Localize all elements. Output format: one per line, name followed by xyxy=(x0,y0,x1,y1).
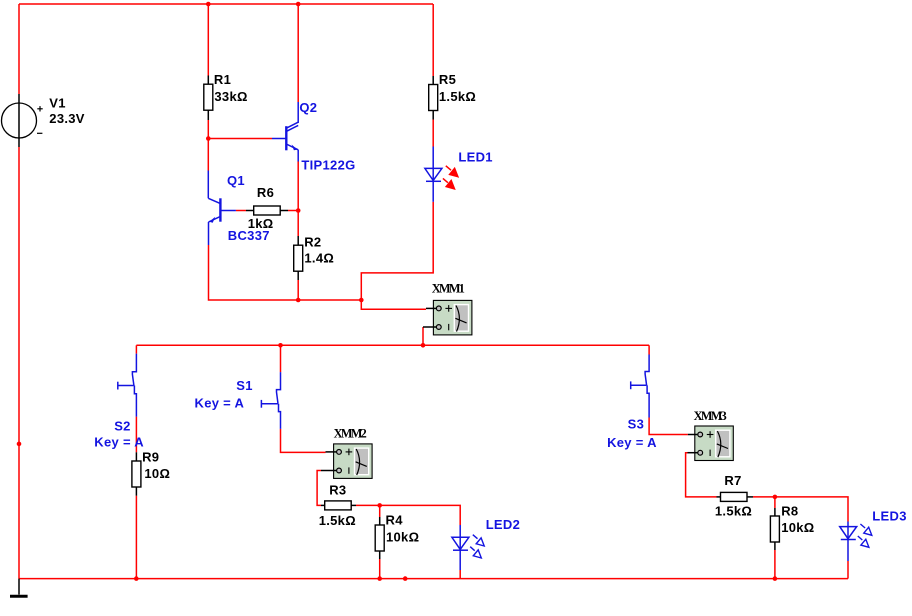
svg-text:BC337: BC337 xyxy=(228,228,270,243)
svg-text:R8: R8 xyxy=(781,504,798,519)
svg-text:LED2: LED2 xyxy=(486,517,520,532)
svg-text:S3: S3 xyxy=(628,416,645,431)
svg-text:R9: R9 xyxy=(142,449,159,464)
svg-text:Key = A: Key = A xyxy=(195,395,245,410)
svg-text:LED1: LED1 xyxy=(458,149,492,164)
svg-text:1.5kΩ: 1.5kΩ xyxy=(319,513,356,528)
svg-text:R5: R5 xyxy=(439,72,456,87)
svg-text:LED3: LED3 xyxy=(872,508,906,523)
svg-text:R6: R6 xyxy=(257,185,274,200)
svg-text:Q2: Q2 xyxy=(299,100,317,115)
svg-text:R2: R2 xyxy=(304,234,321,249)
svg-text:Key = A: Key = A xyxy=(607,435,657,450)
svg-text:S1: S1 xyxy=(236,378,253,393)
svg-text:1.4Ω: 1.4Ω xyxy=(304,250,334,265)
svg-text:S2: S2 xyxy=(114,418,131,433)
svg-text:R3: R3 xyxy=(329,482,346,497)
svg-text:Key = A: Key = A xyxy=(94,434,144,449)
svg-text:V1: V1 xyxy=(49,96,66,111)
svg-text:33kΩ: 33kΩ xyxy=(214,89,247,104)
svg-text:XMM3: XMM3 xyxy=(694,409,727,423)
svg-text:XMM1: XMM1 xyxy=(432,282,465,296)
svg-text:Q1: Q1 xyxy=(227,173,245,188)
svg-text:10Ω: 10Ω xyxy=(144,466,170,481)
svg-text:1.5kΩ: 1.5kΩ xyxy=(715,504,752,519)
svg-text:10kΩ: 10kΩ xyxy=(781,520,814,535)
svg-text:R1: R1 xyxy=(214,72,231,87)
svg-text:10kΩ: 10kΩ xyxy=(386,529,419,544)
svg-text:R7: R7 xyxy=(724,473,741,488)
svg-text:R4: R4 xyxy=(386,513,404,528)
svg-text:XMM2: XMM2 xyxy=(334,426,367,440)
svg-text:TIP122G: TIP122G xyxy=(301,157,355,172)
svg-text:1.5kΩ: 1.5kΩ xyxy=(439,89,476,104)
svg-text:23.3V: 23.3V xyxy=(49,111,85,126)
